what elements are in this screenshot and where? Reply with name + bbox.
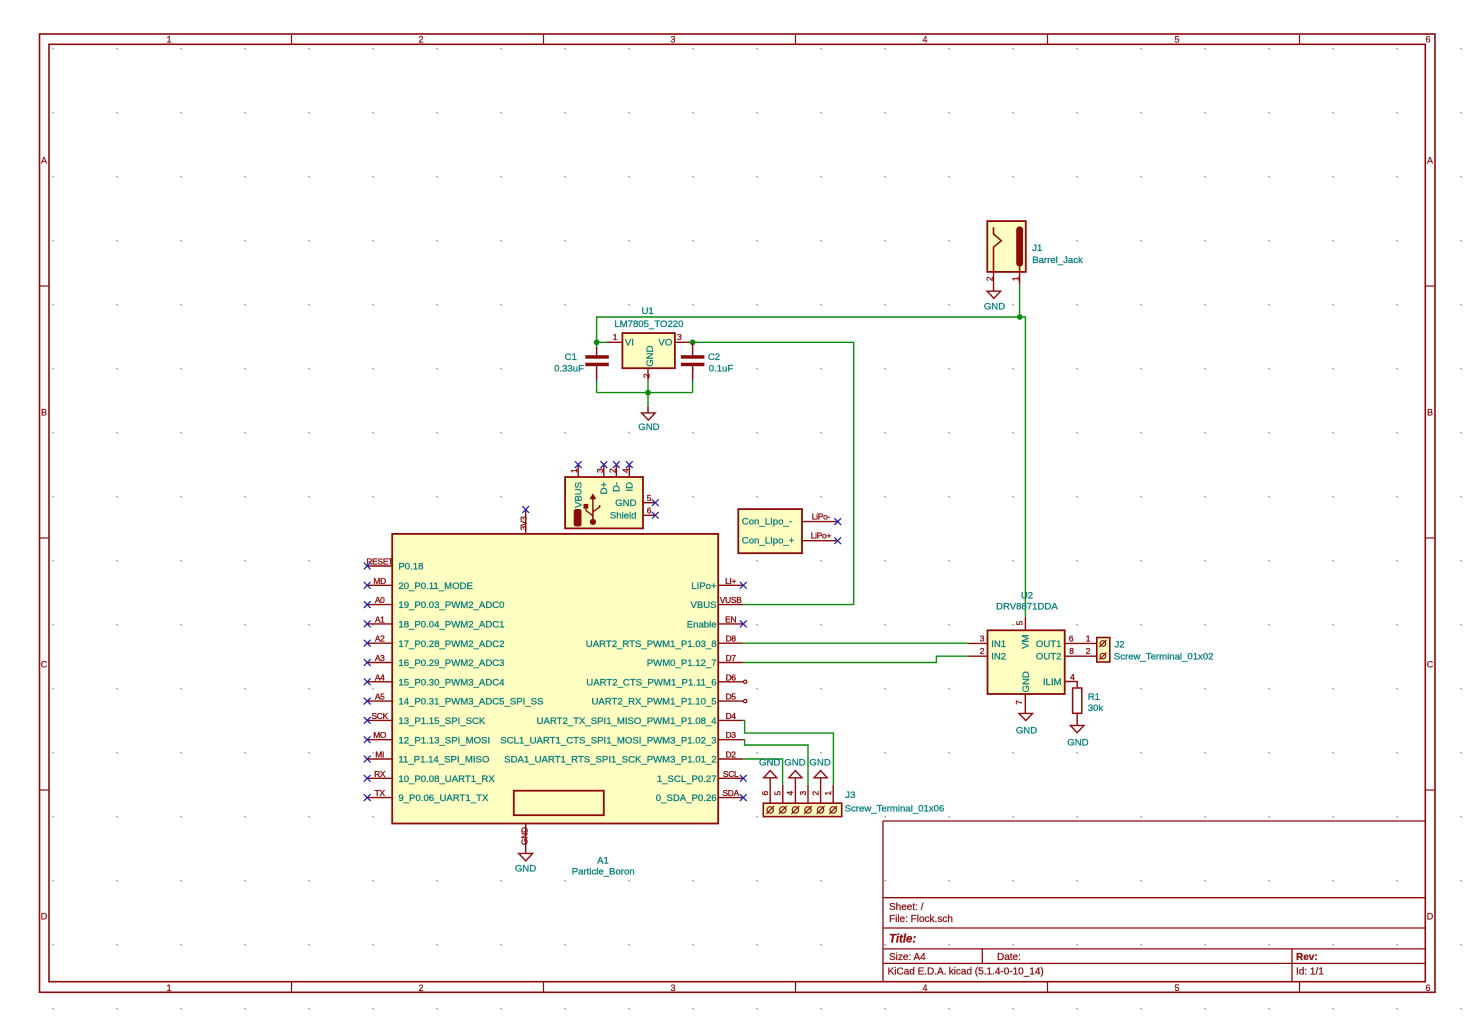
svg-text:RX: RX [374, 769, 386, 779]
A1 left pin MI (11_P1.14_SPI_MISO) [367, 750, 489, 766]
svg-text:LiPo-: LiPo- [812, 511, 831, 521]
wire C1 to bottom gnd rail [596, 381, 598, 393]
svg-text:VM: VM [1021, 634, 1032, 648]
no-connect on A1 pin SCL [740, 775, 747, 782]
svg-text:5: 5 [1014, 620, 1024, 625]
svg-text:B: B [1427, 408, 1433, 418]
wire A1 D7 to U2 IN2 [743, 656, 968, 662]
svg-text:GND: GND [759, 757, 780, 768]
svg-text:D+: D+ [599, 482, 610, 495]
svg-text:C2: C2 [708, 352, 720, 363]
wire C2 to bottom gnd rail [692, 381, 694, 393]
svg-text:SDA: SDA [722, 788, 739, 798]
svg-text:5: 5 [647, 493, 652, 503]
svg-text:D5: D5 [726, 692, 737, 702]
svg-text:Screw_Terminal_01x02: Screw_Terminal_01x02 [1114, 652, 1214, 663]
svg-text:D: D [1427, 911, 1434, 921]
J3 pin 2 [810, 785, 820, 803]
A1 left pin MO (12_P1.13_SPI_MOSI) [367, 730, 490, 746]
svg-text:U2: U2 [1021, 590, 1033, 601]
svg-text:A1: A1 [597, 855, 609, 866]
svg-text:3: 3 [595, 468, 605, 473]
svg-text:B: B [41, 408, 47, 418]
no-connect on USB pin 5 [652, 499, 659, 506]
svg-text:MO: MO [373, 730, 387, 740]
connector J1 Barrel_Jack body [987, 221, 1026, 272]
connector J2 Screw_Terminal_01x02 body [1097, 638, 1110, 663]
svg-text:UART2_CTS_PWM1_P1.11_6: UART2_CTS_PWM1_P1.11_6 [586, 677, 716, 688]
svg-text:18_P0.04_PWM2_ADC1: 18_P0.04_PWM2_ADC1 [398, 620, 504, 631]
svg-text:2: 2 [642, 373, 652, 378]
svg-text:15_P0.30_PWM3_ADC4: 15_P0.30_PWM3_ADC4 [398, 677, 505, 688]
svg-text:VO: VO [658, 338, 672, 349]
svg-text:3: 3 [670, 983, 675, 993]
A1 left pin A1 (18_P0.04_PWM2_ADC1) [367, 614, 504, 630]
ground symbol under U1 [638, 406, 659, 433]
A1 bottom pin GND [520, 824, 530, 854]
svg-text:1: 1 [166, 35, 171, 45]
no-connect on A1 pin A0 [364, 601, 371, 608]
svg-text:16_P0.29_PWM2_ADC3: 16_P0.29_PWM2_ADC3 [398, 658, 504, 669]
capacitor C2 [681, 342, 705, 381]
A1 right pin SDA (0_SDA_P0.26) [656, 788, 744, 804]
no-connect on A1 pin A2 [364, 640, 371, 647]
wire J1 pin1 to VIN junction [1019, 285, 1021, 317]
wire A1 D2 to J3 pin 5 [743, 759, 782, 785]
no-connect on USB pin 6 [652, 512, 659, 519]
J3 pin 6 [760, 785, 770, 803]
svg-text:19_P0.03_PWM2_ADC0: 19_P0.03_PWM2_ADC0 [398, 600, 504, 611]
svg-text:D8: D8 [726, 634, 737, 644]
U2 pin 8 OUT2 [1065, 646, 1097, 656]
A1 right pin D3 (SCL1_UART1_CTS_SPI1_MOSI_PWM3_P1.02_3) [500, 730, 743, 746]
ground symbol at J3 (x=770.2) [759, 757, 780, 785]
svg-text:LiPo+: LiPo+ [811, 531, 832, 541]
svg-text:SCK: SCK [371, 711, 388, 721]
wire VIN riser at C1/U1-VI [596, 316, 598, 342]
A1 right pin VUSB (VBUS) [690, 595, 743, 611]
svg-text:A0: A0 [375, 595, 385, 605]
open pin-end marker on A1 pin D5 [744, 699, 747, 702]
A1 right pin D6 (UART2_CTS_PWM1_P1.11_6) [586, 672, 743, 688]
no-connect on A1 pin A3 [364, 659, 371, 666]
USB pin 5 GND [615, 493, 655, 509]
svg-text:GND: GND [1016, 726, 1037, 737]
svg-text:P0.18: P0.18 [398, 562, 423, 573]
svg-text:6: 6 [1425, 983, 1430, 993]
connector J3 Screw_Terminal_01x06 body [763, 803, 841, 816]
no-connect on A1 pin RESET [364, 563, 371, 570]
A1 left pin A4 (15_P0.30_PWM3_ADC4) [367, 672, 505, 688]
title block [883, 821, 1425, 982]
svg-text:PWM0_P1.12_7: PWM0_P1.12_7 [647, 658, 717, 669]
wire gnd rail under U1 [597, 392, 693, 394]
svg-text:UART2_RX_PWM1_P1.10_5: UART2_RX_PWM1_P1.10_5 [591, 697, 716, 708]
no-connect on A1 pin MD [364, 582, 371, 589]
svg-text:2: 2 [418, 983, 423, 993]
J3 pin 1 [823, 785, 833, 803]
wire VIN vertical down to U2 VM [1024, 316, 1026, 617]
A1 right pin LI+ (LIPo+) [691, 576, 743, 592]
svg-text:Sheet: /: Sheet: / [889, 902, 924, 913]
A1 right pin EN (Enable) [687, 614, 744, 630]
no-connect on A1 pin MI [364, 756, 371, 763]
A1 right pin SCL (1_SCL_P0.27) [657, 769, 743, 785]
svg-text:GND: GND [1021, 671, 1032, 692]
A1 left pin MD (20_P0.11_MODE) [367, 576, 473, 592]
USB pin 3 D+ [595, 465, 610, 495]
svg-text:6: 6 [760, 791, 770, 796]
svg-text:Rev:: Rev: [1296, 952, 1318, 963]
svg-text:20_P0.11_MODE: 20_P0.11_MODE [398, 581, 472, 592]
svg-text:10_P0.08_UART1_RX: 10_P0.08_UART1_RX [398, 774, 495, 785]
svg-text:VI: VI [625, 338, 634, 349]
svg-text:5: 5 [1174, 983, 1179, 993]
svg-text:1: 1 [1011, 276, 1021, 281]
svg-text:GND: GND [520, 827, 530, 845]
open pin-end marker on A1 pin D6 [744, 680, 747, 683]
svg-text:Screw_Terminal_01x06: Screw_Terminal_01x06 [845, 803, 945, 814]
svg-text:LM7805_TO220: LM7805_TO220 [614, 319, 683, 330]
wire U1 VO to A1 VUSB [689, 342, 854, 604]
J3 pin 4 [785, 785, 795, 803]
svg-text:VUSB: VUSB [720, 595, 742, 605]
no-connect on A1 pin EN [740, 621, 747, 628]
A1 right pin D2 (SDA1_UART1_RTS_SPI1_SCK_PWM3_P1.01_2) [504, 750, 743, 766]
svg-text:12_P1.13_SPI_MOSI: 12_P1.13_SPI_MOSI [398, 735, 490, 746]
svg-text:A4: A4 [375, 672, 385, 682]
USB pin 2 D- [607, 465, 622, 492]
svg-text:5: 5 [773, 791, 783, 796]
svg-text:11_P1.14_SPI_MISO: 11_P1.14_SPI_MISO [398, 755, 489, 766]
svg-text:1: 1 [569, 468, 579, 473]
svg-text:J3: J3 [845, 790, 855, 801]
svg-text:D6: D6 [726, 672, 737, 682]
U2 pin 5 VM [1014, 617, 1025, 630]
svg-text:2: 2 [1086, 646, 1091, 656]
ground symbol under U2 [1016, 713, 1037, 736]
svg-text:6: 6 [647, 506, 652, 516]
svg-text:6: 6 [1069, 633, 1074, 643]
svg-text:2: 2 [985, 276, 995, 281]
svg-text:Con_LIpo_+: Con_LIpo_+ [742, 536, 795, 547]
svg-text:GND: GND [984, 302, 1005, 313]
svg-text:Id: 1/1: Id: 1/1 [1296, 967, 1324, 978]
no-connect on pin LiPo+ [834, 537, 841, 544]
svg-text:2: 2 [418, 35, 423, 45]
wire A1 D8 to U2 IN1 [743, 642, 968, 644]
svg-text:D-: D- [612, 482, 623, 492]
svg-text:kicad (5.1.4-0-10_14): kicad (5.1.4-0-10_14) [949, 967, 1044, 978]
svg-text:4: 4 [922, 35, 927, 45]
ground symbol under A1 [515, 853, 536, 874]
J3 pin 3 [798, 785, 808, 803]
svg-text:2: 2 [607, 468, 617, 473]
A1 left pin RX (10_P0.08_UART1_RX) [367, 769, 495, 785]
no-connect on USB pin 3 [600, 461, 607, 468]
wire VIN horizontal from U1 area to J1 junction [597, 316, 1026, 318]
A1 top pin 3V3 [519, 510, 529, 534]
U2 pin 7 GND [1014, 694, 1025, 713]
U2 pin 6 OUT1 [1065, 633, 1097, 643]
svg-text:3: 3 [677, 332, 682, 342]
U2 pin 4 ILIM [1065, 672, 1078, 688]
J3 pin 5 [773, 785, 783, 803]
svg-text:6: 6 [1425, 35, 1430, 45]
wire U1 pin2 to gnd rail [647, 381, 649, 393]
no-connect on USB pin 1 [575, 461, 582, 468]
svg-text:MI: MI [375, 750, 384, 760]
A1 right pin D4 (UART2_TX_SPI1_MISO_PWM1_P1.08_4) [537, 711, 744, 727]
svg-text:8: 8 [1069, 646, 1074, 656]
svg-text:MD: MD [373, 576, 386, 586]
A1 inner rectangle (module outline) [514, 791, 604, 816]
svg-text:GND: GND [784, 757, 805, 768]
svg-text:SDA1_UART1_RTS_SPI1_SCK_PWM3_P: SDA1_UART1_RTS_SPI1_SCK_PWM3_P1.01_2 [504, 755, 716, 766]
no-connect on A1 pin A1 [364, 621, 371, 628]
svg-text:14_P0.31_PWM3_ADC5_SPI_SS: 14_P0.31_PWM3_ADC5_SPI_SS [398, 697, 543, 708]
wire U1 pin1 stub [597, 341, 607, 343]
svg-text:17_P0.28_PWM2_ADC2: 17_P0.28_PWM2_ADC2 [398, 639, 504, 650]
ground symbol at J3 (x=820.6) [809, 757, 830, 785]
svg-text:GND: GND [645, 345, 656, 366]
USB icon [584, 493, 600, 525]
svg-text:A: A [41, 156, 47, 166]
A1 left pin TX (9_P0.06_UART1_TX) [367, 788, 489, 804]
A1 left pin SCK (13_P1.15_SPI_SCK) [367, 711, 486, 727]
svg-text:4: 4 [922, 983, 927, 993]
svg-text:4: 4 [785, 791, 795, 796]
svg-text:1: 1 [613, 332, 618, 342]
svg-text:GND: GND [1067, 737, 1088, 748]
svg-text:D7: D7 [726, 653, 737, 663]
no-connect on A1 pin SCK [364, 717, 371, 724]
svg-text:1: 1 [166, 983, 171, 993]
svg-text:Con_LIpo_-: Con_LIpo_- [742, 517, 792, 528]
svg-text:IN2: IN2 [991, 652, 1006, 663]
no-connect on A1 pin A5 [364, 698, 371, 705]
svg-text:9_P0.06_UART1_TX: 9_P0.06_UART1_TX [398, 793, 489, 804]
svg-text:IN1: IN1 [991, 639, 1006, 650]
J1 pin 1 [1011, 272, 1021, 285]
Con_LiPo pin LiPo+ [802, 531, 838, 541]
svg-text:1: 1 [823, 791, 833, 796]
svg-text:4: 4 [1070, 672, 1075, 682]
A1 right pin D8 (UART2_RTS_PWM1_P1.03_8) [586, 634, 744, 650]
svg-text:1: 1 [1086, 633, 1091, 643]
junction at U1 VO / C2 [690, 339, 696, 345]
motor driver U2 DRV8871DDA body [988, 630, 1065, 694]
A1 left pin A3 (16_P0.29_PWM2_ADC3) [367, 653, 504, 669]
no-connect on pin LiPo- [834, 518, 841, 525]
A1 right pin D7 (PWM0_P1.12_7) [647, 653, 744, 669]
USB pin 1 VBUS [569, 465, 584, 508]
svg-text:5: 5 [1174, 35, 1179, 45]
A1 left pin A2 (17_P0.28_PWM2_ADC2) [367, 634, 504, 650]
svg-text:A2: A2 [375, 634, 385, 644]
svg-text:A: A [1427, 156, 1433, 166]
svg-text:D4: D4 [726, 711, 737, 721]
capacitor C1 [585, 347, 609, 381]
svg-text:TX: TX [375, 788, 386, 798]
svg-text:SCL1_UART1_CTS_SPI1_MOSI_PWM3_: SCL1_UART1_CTS_SPI1_MOSI_PWM3_P1.02_3 [500, 735, 716, 746]
svg-text:3: 3 [798, 791, 808, 796]
svg-text:C: C [41, 660, 48, 670]
wire gnd rail to GND symbol [647, 393, 649, 407]
svg-text:0.33uF: 0.33uF [554, 364, 584, 375]
svg-text:Title:: Title: [889, 934, 916, 946]
no-connect on A1 pin RX [364, 775, 371, 782]
connector Con_LiPo body [738, 509, 802, 553]
A1 left pin RESET (P0.18) [366, 557, 423, 573]
svg-text:13_P1.15_SPI_SCK: 13_P1.15_SPI_SCK [398, 716, 486, 727]
ground symbol at J3 (x=795.4) [784, 757, 805, 785]
svg-text:A5: A5 [375, 692, 385, 702]
U1 pin 1 VI [607, 332, 622, 342]
svg-text:Shield: Shield [610, 511, 637, 522]
ground symbol at J1 pin 2 [984, 291, 1005, 313]
svg-text:Enable: Enable [687, 620, 717, 631]
svg-text:GND: GND [809, 757, 830, 768]
wire A1 D3 to J3 pin 3 [743, 740, 808, 785]
svg-text:RESET: RESET [366, 557, 393, 567]
svg-text:D: D [41, 911, 48, 921]
junction at U1 gnd rail [645, 390, 651, 396]
svg-text:File: Flock.sch: File: Flock.sch [889, 914, 953, 925]
U2 pin 2 IN2 [968, 646, 988, 656]
wire VI junction to C1 [596, 342, 598, 347]
svg-text:1_SCL_P0.27: 1_SCL_P0.27 [657, 774, 717, 785]
svg-text:OUT1: OUT1 [1036, 639, 1062, 650]
no-connect on A1 pin TX [364, 794, 371, 801]
no-connect on A1 pin SDA [740, 794, 747, 801]
junction at J1 pin1 / VIN [1017, 314, 1023, 320]
svg-text:C1: C1 [565, 352, 577, 363]
svg-text:0.1uF: 0.1uF [709, 364, 734, 375]
svg-text:2: 2 [980, 646, 985, 656]
svg-text:ILIM: ILIM [1043, 677, 1062, 688]
no-connect on A1 pin MO [364, 736, 371, 743]
svg-text:SCL: SCL [723, 769, 739, 779]
svg-text:3: 3 [980, 633, 985, 643]
svg-text:D3: D3 [726, 730, 737, 740]
svg-text:LI+: LI+ [725, 576, 736, 586]
A1 left pin A0 (19_P0.03_PWM2_ADC0) [367, 595, 504, 611]
no-connect on A1 pin 3V3 [522, 506, 529, 513]
svg-text:R1: R1 [1088, 692, 1100, 703]
svg-text:C: C [1427, 660, 1434, 670]
J1 pin 2 [985, 272, 995, 291]
svg-text:A1: A1 [375, 614, 385, 624]
svg-text:30k: 30k [1088, 703, 1104, 714]
svg-text:U1: U1 [641, 306, 653, 317]
svg-text:KiCad E.D.A.: KiCad E.D.A. [888, 967, 947, 978]
svg-text:UART2_RTS_PWM1_P1.03_8: UART2_RTS_PWM1_P1.03_8 [586, 639, 717, 650]
junction at U1 VI / C1 [594, 339, 600, 345]
svg-text:GND: GND [515, 863, 536, 874]
U1 pin 3 VO [675, 332, 689, 342]
microcontroller A1 Particle_Boron body [392, 534, 718, 824]
svg-text:OUT2: OUT2 [1036, 652, 1062, 663]
USB pin 4 ID [620, 465, 635, 492]
svg-text:LIPo+: LIPo+ [691, 581, 717, 592]
svg-text:DRV8871DDA: DRV8871DDA [996, 602, 1058, 613]
no-connect on USB pin 4 [626, 461, 633, 468]
svg-text:4: 4 [620, 468, 630, 473]
svg-text:J1: J1 [1032, 243, 1042, 254]
Con_LiPo pin LiPo- [802, 511, 838, 521]
A1 right pin D5 (UART2_RX_PWM1_P1.10_5) [591, 692, 743, 708]
wire A1 D4 to J3 pin 1 [743, 720, 833, 785]
svg-text:Date:: Date: [997, 952, 1021, 963]
svg-text:ID: ID [624, 482, 635, 492]
svg-text:A3: A3 [375, 653, 385, 663]
svg-text:J2: J2 [1115, 640, 1125, 651]
U1 pin 2 GND [642, 368, 652, 381]
no-connect on USB pin 2 [613, 461, 620, 468]
svg-text:7: 7 [1014, 700, 1024, 705]
A1 left pin A5 (14_P0.31_PWM3_ADC5_SPI_SS) [367, 692, 543, 708]
no-connect on A1 pin A4 [364, 678, 371, 685]
svg-text:3V3: 3V3 [519, 516, 529, 531]
svg-text:VBUS: VBUS [573, 482, 584, 508]
svg-text:0_SDA_P0.26: 0_SDA_P0.26 [656, 793, 717, 804]
U2 pin 3 IN1 [968, 633, 988, 643]
svg-text:Barrel_Jack: Barrel_Jack [1032, 255, 1083, 266]
USB connector body [565, 477, 643, 528]
svg-text:GND: GND [615, 498, 636, 509]
svg-text:EN: EN [725, 614, 736, 624]
svg-text:Size: A4: Size: A4 [889, 952, 926, 963]
regulator U1 LM7805_TO220 body [622, 333, 675, 368]
svg-text:Particle_Boron: Particle_Boron [572, 866, 635, 877]
svg-text:D2: D2 [726, 750, 737, 760]
ground symbol under R1 [1067, 726, 1088, 749]
USB pin 6 Shield [610, 506, 655, 522]
resistor R1 [1073, 688, 1082, 726]
svg-text:VBUS: VBUS [690, 600, 716, 611]
no-connect on A1 pin LI+ [740, 582, 747, 589]
svg-text:2: 2 [810, 791, 820, 796]
svg-text:3: 3 [670, 35, 675, 45]
svg-text:UART2_TX_SPI1_MISO_PWM1_P1.08_: UART2_TX_SPI1_MISO_PWM1_P1.08_4 [537, 716, 718, 727]
svg-text:GND: GND [638, 422, 659, 433]
